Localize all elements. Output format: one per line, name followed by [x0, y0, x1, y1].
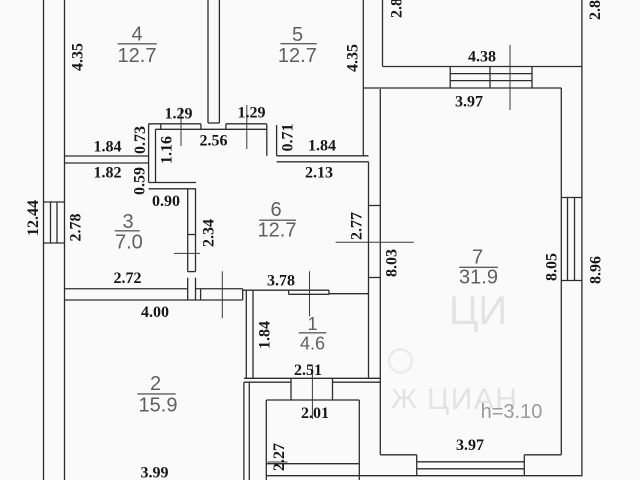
svg-text:ЦИ: ЦИ [449, 289, 507, 333]
svg-text:h=3.10: h=3.10 [481, 401, 543, 423]
svg-text:3.99: 3.99 [141, 465, 169, 480]
room label 3 bar [115, 230, 140, 232]
svg-text:12.7: 12.7 [278, 45, 317, 67]
dimension tick for 2.27 [268, 461, 288, 463]
left outer wall (outer face) [43, 0, 45, 480]
svg-text:1.29: 1.29 [165, 106, 193, 123]
south wall of room 5 (top line) [226, 123, 267, 125]
dimension tick for 3.78 left [221, 271, 223, 318]
svg-text:1.84: 1.84 [257, 321, 274, 349]
right outer wall (outer face) [581, 0, 583, 476]
left outer wall (inner face) [64, 0, 66, 480]
upper-right section bottom wall (inner line) [383, 66, 582, 68]
thin partition caps [289, 290, 329, 294]
svg-text:8.05: 8.05 [544, 253, 561, 281]
upper-right section left wall [382, 0, 384, 67]
partition P1 (left face) [148, 124, 150, 183]
room label 5 bar [281, 43, 317, 45]
svg-text:2.27: 2.27 [271, 443, 288, 471]
watermark logo circle [389, 350, 412, 373]
svg-text:4.00: 4.00 [141, 304, 169, 321]
svg-text:3.78: 3.78 [267, 273, 295, 290]
svg-text:12.44: 12.44 [25, 200, 42, 236]
south wall of rooms 4-5 (bottom line) [156, 128, 267, 130]
corridor north wall 2.13 (bottom line) [277, 161, 369, 163]
window 3.97 in room 7 bottom wall [417, 455, 525, 476]
south wall of room 4 (top line) [149, 123, 201, 125]
corridor south wall / room 2 north wall (bottom line) [65, 299, 243, 301]
entry door box below room 1 [291, 378, 333, 400]
wall 1.84/1.82 (top line) [65, 155, 149, 157]
svg-text:1.84: 1.84 [94, 139, 122, 156]
wall 1.84/1.82 (bottom line) [65, 162, 149, 164]
svg-text:1.82: 1.82 [94, 165, 122, 182]
svg-text:8.03: 8.03 [384, 249, 401, 277]
svg-text:3: 3 [122, 211, 133, 233]
window on right wall (caps) [561, 198, 582, 281]
room 3 right wall (left face) [187, 189, 189, 300]
jog wall 0.90 (bottom line) [149, 188, 196, 190]
room 2 right wall (left face) [243, 382, 245, 480]
room 1 left wall (right face) [252, 290, 254, 378]
corridor-to-room1 threshold [243, 289, 289, 291]
svg-text:4.6: 4.6 [300, 334, 325, 354]
dimension tick for 4.38 / 3.97 top [509, 45, 511, 110]
room 1 bottom wall (bottom line) [244, 381, 380, 383]
svg-text:8.96: 8.96 [588, 256, 605, 284]
jog wall 0.71 (left face) [266, 124, 268, 156]
svg-text:2.77: 2.77 [349, 212, 366, 240]
room label 7 bar [459, 266, 498, 268]
door jamb tick right of divider [225, 124, 227, 130]
window on right wall (inner mullion lines) [568, 198, 575, 281]
door jamb tick left of divider [200, 124, 202, 130]
dimension tick for 1.29 right [246, 105, 248, 149]
right outer wall (inner face) [560, 88, 562, 455]
room 2 right wall (right face) [248, 382, 250, 480]
svg-text:2.8: 2.8 [389, 0, 406, 18]
svg-text:0.59: 0.59 [132, 167, 149, 195]
svg-text:2.34: 2.34 [201, 219, 218, 247]
right wall of room 5 [362, 0, 364, 156]
corridor north wall 2.13 (top line) [277, 155, 369, 157]
partition P1 (right face) [155, 129, 157, 182]
room 6 bottom threshold [329, 293, 369, 295]
svg-text:4.35: 4.35 [70, 43, 87, 71]
svg-text:1: 1 [307, 314, 317, 334]
dimension tick for 1.29 left [180, 108, 182, 147]
window on left wall (inner mullion lines) [51, 202, 58, 243]
svg-text:4.38: 4.38 [468, 49, 496, 66]
wall between rooms 6 and 7 (left face, continues as room 1 right wall) [368, 162, 370, 378]
jog wall 0.71 (right face) [276, 125, 278, 156]
svg-text:15.9: 15.9 [139, 395, 178, 417]
svg-text:12.7: 12.7 [258, 220, 297, 242]
corridor south wall end cap [242, 289, 244, 300]
svg-text:12.7: 12.7 [118, 45, 157, 67]
svg-text:2.78: 2.78 [68, 214, 85, 242]
svg-text:2.56: 2.56 [200, 133, 228, 150]
wall between rooms 4 and 5 (left face) [207, 0, 209, 123]
svg-text:5: 5 [292, 24, 303, 46]
svg-text:3.97: 3.97 [456, 437, 484, 454]
svg-text:7.0: 7.0 [115, 232, 143, 254]
thin partition south of corridor (bottom line) [289, 293, 329, 295]
thin partition south of corridor (top line) [289, 289, 329, 291]
room label 2 bar [137, 393, 176, 395]
svg-text:0.90: 0.90 [152, 193, 180, 210]
window on left wall (sill caps) [43, 202, 65, 243]
svg-text:2.01: 2.01 [301, 405, 329, 422]
svg-text:4.35: 4.35 [345, 44, 362, 72]
wall between rooms 4 and 5 (right face) [218, 0, 220, 123]
svg-text:0.73: 0.73 [132, 126, 149, 154]
cap inside wall 6/7 [369, 205, 381, 207]
room 7 bottom wall (inner line) [380, 454, 561, 456]
dimension tick for 2.51 / 2.01 [311, 366, 313, 419]
window 4.38/3.97 in upper-right bottom wall [450, 67, 532, 89]
svg-text:2.72: 2.72 [114, 270, 142, 287]
svg-text:6: 6 [270, 199, 281, 221]
vestibule right wall [358, 400, 360, 480]
svg-text:4: 4 [131, 23, 142, 45]
dimension tick for 2.34 [174, 252, 200, 254]
svg-text:2: 2 [150, 373, 161, 395]
svg-text:31.9: 31.9 [459, 267, 498, 289]
room label 4 bar [118, 43, 157, 45]
svg-text:1.29: 1.29 [238, 105, 266, 122]
wall between rooms 6 and 7 (right face, runs to bottom wall) [379, 89, 381, 455]
svg-text:2.8: 2.8 [587, 0, 604, 20]
svg-text:3.97: 3.97 [455, 94, 483, 111]
vestibule left wall [265, 400, 267, 480]
corridor south wall / room 2 north wall (top line) [65, 288, 243, 290]
svg-text:2.13: 2.13 [305, 165, 333, 182]
jog wall 0.90 (top line) [149, 182, 196, 184]
bottom cap of wall 6/7 (door jamb) [369, 277, 381, 279]
room label 6 bar [259, 219, 296, 221]
upper-right section bottom wall (lower line) [363, 87, 561, 89]
svg-text:Ж: Ж [391, 383, 417, 414]
room label 1 bar [299, 332, 327, 334]
svg-text:0.71: 0.71 [280, 124, 297, 152]
room 3 right wall (right face) [195, 189, 197, 300]
vestibule bottom wall (inner line) [266, 463, 359, 465]
room 1 bottom wall (top line) [244, 377, 380, 379]
corridor south wall pier cap [200, 289, 202, 300]
svg-text:1.84: 1.84 [308, 138, 336, 155]
wall between rooms 4 and 5 (bottom cap) [208, 122, 219, 124]
door caps in room 3 right wall [188, 235, 196, 272]
door jamb tick in room 4 south wall [160, 124, 162, 130]
svg-text:2.51: 2.51 [294, 362, 322, 379]
room 1 left wall (left face) [245, 290, 247, 378]
svg-text:1.16: 1.16 [159, 136, 176, 164]
dimension tick for 3.78 right [309, 271, 311, 316]
dimension tick for 2.77 [336, 241, 414, 243]
vestibule top wall [266, 399, 359, 401]
outer bottom edge [266, 475, 582, 477]
svg-text:7: 7 [472, 247, 483, 269]
